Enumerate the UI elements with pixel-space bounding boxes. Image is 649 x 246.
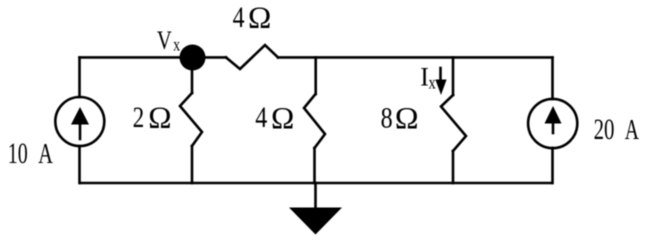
current source I1 circle — [55, 97, 104, 146]
Ix arrow shaft — [439, 68, 442, 82]
current source I2 arrow head — [545, 106, 562, 124]
wire 8ohm branch lower — [452, 151, 455, 183]
svg-text:Ω: Ω — [248, 0, 271, 34]
svg-text:x: x — [173, 36, 180, 55]
resistor 4ohm top zigzag — [226, 45, 278, 69]
wire right branch upper — [551, 57, 554, 99]
current source I2 arrow shaft — [552, 123, 555, 133]
wire left branch lower — [78, 146, 81, 183]
resistor 2ohm zigzag — [180, 93, 202, 146]
svg-text:Ω: Ω — [271, 100, 294, 135]
svg-text:8: 8 — [381, 101, 393, 134]
wire 2ohm branch lower — [191, 146, 194, 183]
svg-text:2: 2 — [133, 100, 145, 133]
wire 2ohm branch upper — [191, 66, 194, 93]
svg-text:x: x — [429, 72, 436, 93]
resistor 4ohm middle zigzag — [304, 94, 325, 148]
svg-text:Ω: Ω — [395, 100, 419, 134]
svg-text:4: 4 — [255, 101, 267, 134]
wire 8ohm branch upper — [452, 57, 455, 95]
ground symbol — [289, 208, 342, 235]
node Vx dot — [180, 45, 206, 71]
wire right branch lower — [551, 148, 554, 183]
resistor 8ohm zigzag — [441, 95, 466, 151]
svg-text:A: A — [625, 114, 639, 146]
svg-text:A: A — [38, 139, 53, 170]
svg-text:4: 4 — [233, 1, 245, 34]
current source I1 arrow head — [71, 107, 89, 125]
svg-text:10: 10 — [8, 137, 28, 170]
Ix arrow head — [435, 80, 446, 96]
svg-text:20: 20 — [594, 112, 615, 146]
current source I1 arrow shaft — [79, 124, 82, 139]
wire top right segment — [278, 56, 553, 59]
wire bottom — [80, 182, 552, 185]
wire middle branch upper — [314, 57, 317, 94]
wire middle branch lower — [313, 148, 316, 183]
wire left branch upper — [78, 57, 81, 97]
svg-text:I: I — [420, 62, 429, 91]
wire ground stem — [314, 183, 317, 208]
current source I2 circle — [528, 99, 577, 148]
svg-text:V: V — [157, 27, 172, 56]
svg-text:Ω: Ω — [148, 100, 171, 135]
wire top left segment — [80, 56, 227, 59]
